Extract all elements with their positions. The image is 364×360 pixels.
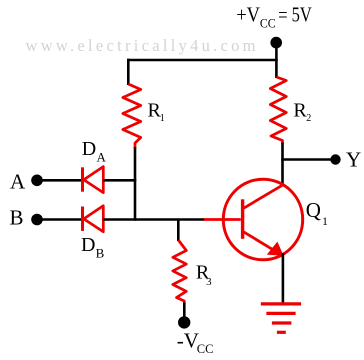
svg-text:1: 1: [160, 113, 165, 124]
svg-text:A: A: [97, 150, 107, 165]
node -Vcc terminal dot: [178, 316, 190, 328]
wire top horizontal rail: [127, 59, 278, 62]
wire Vcc dot down to R2 top: [275, 45, 278, 78]
transistor Q1 base lead (red): [204, 218, 241, 221]
wire emitter to ground: [282, 254, 285, 306]
transistor Q1 circle: [223, 179, 302, 260]
svg-text:Q: Q: [306, 198, 321, 222]
svg-text:R: R: [293, 99, 307, 121]
svg-text:www.electrically4u.com: www.electrically4u.com: [26, 36, 259, 55]
ground: [261, 304, 301, 332]
svg-text:A: A: [10, 169, 26, 193]
transistor Q1 base bar: [241, 199, 244, 239]
wire diode DA to bus: [103, 179, 136, 182]
resistor R1: [123, 84, 141, 149]
wire diode DB to transistor base (black part): [103, 218, 204, 221]
node input A dot: [31, 175, 43, 187]
transistor Q1 emitter arrowhead: [268, 243, 283, 256]
diode DB: [83, 206, 104, 232]
wire B dot to diode DB: [41, 218, 81, 221]
svg-text:3: 3: [206, 276, 212, 288]
svg-text:B: B: [96, 246, 105, 261]
wire top rail down to R1 top: [127, 59, 130, 85]
wire R3 bottom lead: [183, 303, 186, 318]
svg-text:D: D: [81, 234, 95, 256]
svg-text:1: 1: [322, 214, 328, 228]
wire A dot to diode DA: [41, 179, 81, 182]
node +Vcc terminal dot: [270, 37, 282, 49]
wire R1 bottom to input bus: [134, 147, 137, 221]
svg-text:CC: CC: [197, 342, 214, 356]
svg-text:D: D: [82, 138, 96, 160]
wire stub down to R3: [177, 219, 180, 242]
diode DA: [83, 167, 104, 193]
wire output to Y: [281, 158, 331, 161]
svg-text:-V: -V: [177, 329, 199, 353]
svg-text:+V: +V: [236, 3, 260, 27]
resistor R2: [270, 77, 286, 144]
svg-text:= 5V: = 5V: [278, 3, 312, 27]
label +Vcc = 5V: [236, 3, 312, 31]
resistor R3: [173, 240, 187, 304]
svg-text:2: 2: [306, 113, 311, 124]
svg-text:Y: Y: [346, 147, 361, 171]
transistor Q1 collector stroke: [242, 185, 283, 209]
svg-text:B: B: [10, 205, 24, 229]
node input B dot: [31, 214, 43, 226]
wire R2 bottom to collector: [281, 143, 284, 187]
transistor Q1 emitter stroke: [242, 231, 273, 250]
svg-text:CC: CC: [260, 15, 276, 30]
node Y dot: [330, 154, 340, 164]
